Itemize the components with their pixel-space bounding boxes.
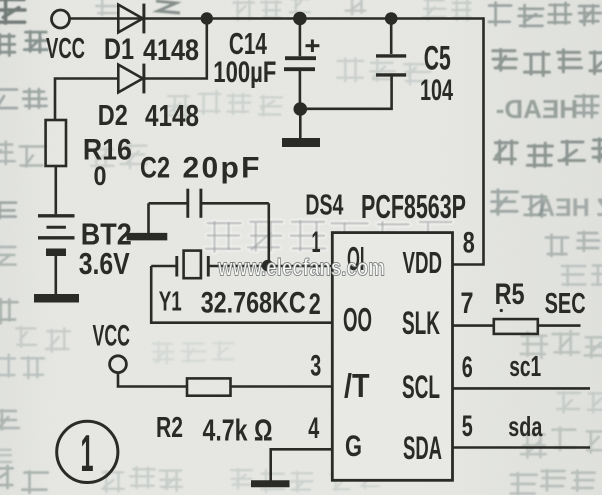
junction node (C14 top) [293, 12, 307, 26]
junction node (C5 top) [385, 12, 398, 25]
ground (pin 4) [251, 480, 290, 487]
junction node (D2/rail) [201, 12, 213, 24]
svg-text:D1: D1 [104, 33, 134, 66]
VCC terminal (top) [52, 10, 70, 28]
wire: D2 cathode to rail junction [144, 19, 207, 79]
wire: rail drop to pin 8 [453, 17, 484, 264]
svg-text:VCC: VCC [93, 320, 131, 353]
wire: VDD top rail [69, 17, 484, 20]
svg-text:3.6V: 3.6V [79, 246, 130, 281]
svg-text:4148: 4148 [145, 98, 199, 133]
wire: C2 right leg down to crystal node [267, 203, 270, 263]
wire: pin 6 (SCL out) [453, 387, 591, 390]
svg-text:20pF: 20pF [183, 152, 260, 185]
wire: battery to ground [54, 256, 57, 294]
svg-text:R5: R5 [495, 278, 525, 311]
svg-text:1: 1 [81, 425, 94, 483]
svg-text:8: 8 [463, 227, 475, 260]
svg-text:sc1: sc1 [509, 351, 541, 383]
svg-text:4148: 4148 [143, 34, 199, 67]
svg-text:SLK: SLK [402, 305, 440, 341]
svg-text:4.7k Ω: 4.7k Ω [203, 413, 273, 448]
svg-text:Z HEA: Z HEA [537, 194, 602, 222]
wire: R5 to SEC [538, 324, 581, 327]
svg-text:Y1: Y1 [159, 286, 182, 317]
wire: pin 7 to R5 [453, 324, 494, 327]
capacitor C5 [376, 19, 406, 75]
wire: D2 anode branch [55, 79, 119, 121]
resistor R2 [187, 378, 231, 395]
wire: pin 5 (SDA out) [453, 446, 591, 449]
svg-text:5: 5 [462, 410, 473, 443]
svg-text:32.768KC: 32.768KC [201, 287, 306, 320]
svg-text:PCF8563P: PCF8563P [361, 188, 466, 225]
svg-text:VDD: VDD [403, 245, 443, 280]
svg-text:3: 3 [310, 349, 321, 382]
crystal Y1 [151, 251, 208, 279]
svg-text:HEAD-: HEAD- [496, 94, 578, 124]
junction node (XTAL/C2/pin1) [262, 260, 274, 272]
svg-text:SCL: SCL [402, 369, 440, 405]
wire: C14/C5 ground rail [300, 77, 391, 109]
svg-text:SDA: SDA [403, 430, 442, 466]
watermark glyphs [206, 222, 241, 252]
svg-text:R2: R2 [156, 412, 183, 444]
svg-text:104: 104 [420, 74, 453, 107]
svg-text:C2: C2 [140, 152, 170, 185]
svg-text:100µF: 100µF [213, 56, 276, 89]
ground (below C14) [282, 115, 320, 143]
svg-text:sda: sda [508, 411, 542, 442]
svg-text:DS4: DS4 [305, 190, 343, 222]
svg-text:7: 7 [461, 287, 474, 320]
wire: pin 4 to ground [271, 449, 333, 480]
wire: crystal left leg to pin 2 [151, 266, 332, 323]
ground (battery) [34, 294, 79, 303]
svg-text:2: 2 [309, 288, 321, 321]
svg-text:D2: D2 [98, 100, 128, 132]
connector symbol: circled 1 [57, 421, 118, 482]
svg-text:VCC: VCC [46, 33, 85, 65]
C14 polarity + [306, 40, 320, 53]
svg-text:C5: C5 [424, 40, 451, 78]
IC DS4 PCF8563P body [332, 233, 452, 481]
svg-text:4: 4 [308, 412, 319, 445]
wire: R2 to pin 3 [231, 385, 333, 388]
capacitor C14 (electrolytic) [284, 19, 316, 104]
svg-text:R16: R16 [83, 133, 132, 166]
capacitor C2 [149, 189, 269, 218]
ground (C2) [127, 233, 168, 241]
svg-text:SEC: SEC [545, 288, 586, 320]
junction node (ground rail) [294, 102, 308, 116]
resistor R5 [494, 319, 538, 334]
svg-text:6: 6 [462, 351, 473, 384]
wire: C2 left leg to ground [147, 203, 150, 233]
wire: crystal to pin 1 [209, 265, 332, 268]
svg-text:www.elecfans.com: www.elecfans.com [217, 255, 385, 282]
resistor R16 [46, 120, 66, 166]
diode D2 [118, 64, 144, 94]
wire: R16 to battery [54, 166, 57, 214]
svg-text:0: 0 [94, 161, 107, 191]
svg-text:OO: OO [343, 301, 372, 338]
svg-text:/T: /T [344, 367, 370, 404]
svg-text:G: G [345, 430, 362, 463]
battery BT2 [38, 216, 75, 252]
VCC terminal (lower) [110, 356, 127, 373]
diode D1 [118, 4, 144, 34]
wire: VCC to pin 3 [118, 372, 187, 386]
stray dot near R5 [500, 309, 503, 312]
